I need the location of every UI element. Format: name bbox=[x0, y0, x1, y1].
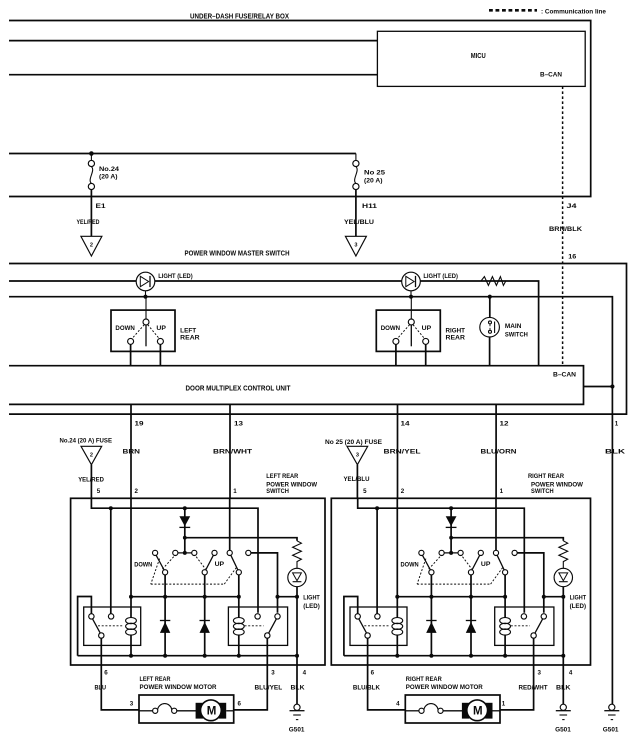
wire pin 13 BRN/WHT bbox=[229, 404, 231, 498]
relay2 coil (left rear) bbox=[233, 618, 244, 656]
contact b2 (left rear) bbox=[202, 570, 207, 575]
wire UP common (left rear) bbox=[204, 575, 206, 656]
junction dot c6 branch (left rear) bbox=[276, 595, 280, 599]
relay1 contacts (left rear) bbox=[89, 614, 114, 639]
wire c2-c3 link (right rear) bbox=[442, 552, 461, 554]
svg-text:DOWN: DOWN bbox=[381, 325, 401, 332]
connector triangle 2 (to fuse box) bbox=[81, 236, 102, 256]
junction dot c2-c3 (left rear) bbox=[183, 551, 187, 555]
svg-text:SWITCH: SWITCH bbox=[266, 488, 289, 495]
relay2 coil-lever dashed (left rear) bbox=[245, 625, 264, 627]
diode D2 (left rear) bbox=[160, 621, 170, 633]
LED D1 LIGHT (LED) bbox=[136, 272, 193, 297]
junction dot ground bus x297 (left rear) bbox=[295, 654, 299, 658]
junction dot LED D1 bbox=[143, 295, 147, 299]
ground bus wire (right rear) bbox=[344, 655, 563, 657]
svg-text:16: 16 bbox=[568, 253, 577, 260]
wire c2-c3 link (left rear) bbox=[175, 552, 194, 554]
connector triangle 2 (from fuse 24) bbox=[81, 446, 102, 464]
junction dot ground bus x204.7 (right rear) bbox=[469, 654, 473, 658]
connector triangle 3 (from fuse 25) bbox=[347, 446, 368, 464]
junction dot coil 2 (right rear) bbox=[503, 595, 507, 599]
power window master switch box bbox=[9, 264, 627, 415]
right rear switch S2 (master) bbox=[376, 297, 440, 352]
junction dot UP common (left rear) bbox=[203, 595, 207, 599]
junction dot coil1 bottom (right rear) bbox=[395, 654, 399, 658]
relay1 coil-lever dashed (left rear) bbox=[98, 625, 124, 627]
right rear power window motor label bbox=[406, 676, 483, 691]
junction dot LED (right rear) bbox=[561, 595, 565, 599]
svg-text:UP: UP bbox=[481, 561, 491, 568]
svg-text:BLK: BLK bbox=[605, 448, 626, 455]
junction dot B-CAN output bbox=[610, 384, 614, 388]
diode D1 (right rear) bbox=[446, 508, 457, 553]
wire pin 14 BRN/YEL bbox=[397, 404, 399, 498]
LED D2 LIGHT (LED) bbox=[402, 272, 458, 297]
svg-text:LIGHT: LIGHT bbox=[303, 595, 320, 602]
junction dot LED (left rear) bbox=[295, 595, 299, 599]
junction dot diode branch (left rear) bbox=[183, 536, 187, 540]
svg-text:BLK: BLK bbox=[556, 685, 571, 692]
contact b2 (right rear) bbox=[468, 570, 473, 575]
door multiplex control unit bbox=[9, 366, 584, 405]
switch lever UP (left rear) bbox=[206, 555, 214, 570]
svg-text:UP: UP bbox=[156, 325, 166, 332]
wire bus into MICU upper bbox=[9, 40, 377, 42]
svg-text:BLU/YEL: BLU/YEL bbox=[255, 685, 283, 692]
svg-text:3: 3 bbox=[130, 701, 134, 708]
LEFT REAR label (S1) bbox=[180, 327, 200, 341]
wire c6 to relay contact (left rear) bbox=[251, 553, 278, 613]
svg-text:1: 1 bbox=[500, 488, 504, 495]
svg-text:LEFT REAR: LEFT REAR bbox=[140, 676, 171, 683]
left rear power window motor M bbox=[139, 695, 234, 723]
junction dot coil2 bottom (left rear) bbox=[237, 654, 241, 658]
bus wire commons (right rear) bbox=[397, 596, 506, 598]
resistor R (right rear) bbox=[559, 541, 568, 569]
svg-text:YEL/BLU: YEL/BLU bbox=[344, 476, 370, 483]
wire LED junction link (left rear) bbox=[278, 596, 298, 598]
junction dot UP common (right rear) bbox=[469, 595, 473, 599]
svg-text:3: 3 bbox=[271, 670, 275, 677]
wire pin 12 BLU/ORN bbox=[495, 404, 497, 498]
left rear power window motor label bbox=[140, 676, 217, 691]
MICU U1 bbox=[377, 31, 585, 86]
contact c3 (right rear) bbox=[458, 550, 463, 555]
junction dot ground bus x204.7 (left rear) bbox=[203, 654, 207, 658]
svg-text:4: 4 bbox=[396, 701, 400, 708]
wire S1 up contact bbox=[159, 344, 161, 365]
contact c4 (left rear) bbox=[212, 550, 217, 555]
svg-text:M: M bbox=[207, 705, 217, 717]
svg-text:BRN/BLK: BRN/BLK bbox=[549, 226, 582, 233]
svg-text:H11: H11 bbox=[362, 203, 378, 210]
diode D3 (right rear) bbox=[466, 621, 476, 633]
wire switch 3 common to coil 2 (right rear) bbox=[504, 575, 506, 618]
svg-text:(LED): (LED) bbox=[570, 603, 587, 610]
svg-text:DOWN: DOWN bbox=[115, 325, 135, 332]
ground G501 (left rear) bbox=[289, 704, 305, 733]
LED LIGHT (right rear) bbox=[554, 568, 586, 610]
junction dot ground bus x297 (right rear) bbox=[561, 654, 565, 658]
svg-text:B–CAN: B–CAN bbox=[540, 72, 562, 79]
wire DOWN common (left rear) bbox=[164, 575, 166, 656]
contact c2 (right rear) bbox=[439, 550, 444, 555]
power feed wire bbox=[9, 153, 356, 155]
svg-text:(LED): (LED) bbox=[303, 603, 320, 610]
svg-text:13: 13 bbox=[234, 421, 244, 428]
junction dot main switch bbox=[488, 295, 492, 299]
wire LED branch (right rear) bbox=[451, 538, 563, 541]
switch linkage dashed (left rear) bbox=[151, 557, 236, 584]
svg-text:YEL/RED: YEL/RED bbox=[78, 477, 104, 484]
svg-text:6: 6 bbox=[238, 701, 242, 708]
svg-text:UP: UP bbox=[215, 561, 225, 568]
contact c5 (right rear) bbox=[493, 550, 498, 555]
sense wire to control unit bbox=[9, 297, 612, 387]
wire relay feed (right rear) bbox=[376, 508, 378, 614]
wire E1 YEL/RED bbox=[90, 190, 92, 237]
svg-text:(20 A): (20 A) bbox=[364, 178, 383, 185]
wire pin 2 to coil (right rear) bbox=[396, 498, 398, 617]
wire S2 up contact bbox=[425, 344, 427, 365]
bus wire commons (left rear) bbox=[130, 596, 239, 598]
svg-text:G501: G501 bbox=[555, 727, 571, 734]
RIGHT REAR POWER WINDOW SWITCH label bbox=[528, 473, 583, 495]
svg-text:5: 5 bbox=[363, 488, 367, 495]
wire bus into MICU lower bbox=[9, 74, 377, 76]
wire relay1 common to motor (left rear) bbox=[101, 638, 139, 710]
resistor R1 bbox=[481, 277, 506, 286]
wire pin 5 feed (left rear) bbox=[91, 498, 258, 613]
wire pin 2 to coil (left rear) bbox=[130, 498, 132, 617]
contact b3 (left rear) bbox=[236, 570, 241, 575]
svg-text:BLU/ORN: BLU/ORN bbox=[481, 448, 517, 455]
LED supply wire bbox=[9, 281, 539, 366]
relay sub-box 1 (left rear) bbox=[84, 607, 141, 645]
svg-text:5: 5 bbox=[97, 488, 101, 495]
relay1 contacts (right rear) bbox=[355, 614, 380, 639]
svg-text:SWITCH: SWITCH bbox=[531, 488, 554, 495]
svg-text:3: 3 bbox=[354, 243, 357, 249]
wire pin 1 BLK bbox=[611, 387, 613, 705]
wire relay1 NC hook (left rear) bbox=[78, 597, 92, 656]
right rear power window switch box bbox=[331, 498, 590, 665]
junction dot diode branch (right rear) bbox=[449, 536, 453, 540]
junction dot ground bus x165.1 (left rear) bbox=[163, 654, 167, 658]
junction dot pin5 branch (left rear) bbox=[109, 506, 113, 510]
relay1 coil-lever dashed (right rear) bbox=[364, 625, 390, 627]
svg-text:LEFT: LEFT bbox=[180, 327, 196, 334]
contact c4 (right rear) bbox=[478, 550, 483, 555]
svg-text:RED/WHT: RED/WHT bbox=[519, 685, 548, 692]
wire B-CAN BRN/BLK (communication line) bbox=[562, 86, 564, 365]
svg-text:G501: G501 bbox=[289, 727, 305, 734]
switch lever aux (right rear) bbox=[497, 555, 504, 570]
relay1 coil (right rear) bbox=[392, 618, 403, 656]
svg-text:G501: G501 bbox=[603, 727, 619, 734]
junction dot diode top (left rear) bbox=[183, 506, 187, 510]
diode D2 (right rear) bbox=[426, 621, 436, 633]
wire pin 1 to c5 (left rear) bbox=[229, 498, 231, 550]
svg-text:RIGHT REAR: RIGHT REAR bbox=[406, 676, 442, 683]
svg-text:LEFT REAR: LEFT REAR bbox=[266, 473, 298, 480]
svg-text:2: 2 bbox=[401, 488, 405, 495]
left rear switch S1 (master) bbox=[111, 297, 175, 352]
svg-text:No.24: No.24 bbox=[99, 166, 120, 173]
svg-text:UP: UP bbox=[422, 325, 432, 332]
junction dot fuse No.24 tap bbox=[89, 151, 94, 156]
junction dot pin5 branch (right rear) bbox=[375, 506, 379, 510]
LED LIGHT (left rear) bbox=[288, 568, 320, 610]
svg-text:3: 3 bbox=[356, 452, 359, 458]
svg-text:REAR: REAR bbox=[446, 335, 466, 342]
junction dot coil1 bottom (left rear) bbox=[129, 654, 133, 658]
wire c6 to relay contact (right rear) bbox=[517, 553, 544, 613]
ground G501 (master switch) bbox=[603, 704, 620, 733]
under-dash fuse/relay box border bbox=[9, 21, 591, 197]
junction dot ground bus x165.1 (right rear) bbox=[429, 654, 433, 658]
relay sub-box 2 (right rear) bbox=[495, 607, 554, 645]
wire relay feed (left rear) bbox=[110, 508, 112, 614]
wire YEL/BLU to pin 5 bbox=[356, 465, 358, 499]
svg-text:1: 1 bbox=[502, 701, 506, 708]
svg-text:2: 2 bbox=[90, 452, 93, 458]
wire pin 1 to c5 (right rear) bbox=[495, 498, 497, 550]
svg-text:No.24 (20 A) FUSE: No.24 (20 A) FUSE bbox=[60, 437, 113, 444]
B-CAN output wire bbox=[584, 386, 613, 388]
wire LED junction link (right rear) bbox=[544, 596, 564, 598]
connector triangle 3 (to fuse box) bbox=[345, 236, 366, 256]
svg-text:M: M bbox=[473, 705, 483, 717]
contact b1 (left rear) bbox=[163, 570, 168, 575]
wire pin 4 BLK (left rear) bbox=[296, 656, 298, 705]
diode D1 (left rear) bbox=[179, 508, 190, 553]
svg-text:BRN/YEL: BRN/YEL bbox=[384, 448, 421, 455]
svg-text:BLU: BLU bbox=[95, 685, 107, 692]
junction dot c2-c3 (right rear) bbox=[449, 551, 453, 555]
wire switch 3 common to coil 2 (left rear) bbox=[238, 575, 240, 618]
wire H11 YEL/BLU bbox=[355, 190, 357, 237]
wire relay1 NC hook (right rear) bbox=[344, 597, 358, 656]
wire relay2 common to motor (right rear) bbox=[500, 638, 534, 710]
relay sub-box 1 (right rear) bbox=[350, 607, 407, 645]
junction dot coil2 bottom (right rear) bbox=[503, 654, 507, 658]
LEFT REAR POWER WINDOW SWITCH label bbox=[266, 473, 317, 495]
svg-text:BRN/WHT: BRN/WHT bbox=[213, 448, 252, 455]
svg-text:1: 1 bbox=[233, 488, 237, 495]
svg-text:LIGHT (LED): LIGHT (LED) bbox=[423, 273, 458, 280]
svg-text:MICU: MICU bbox=[471, 53, 486, 60]
svg-text:No 25: No 25 bbox=[364, 170, 386, 177]
wire relay1 common to motor (right rear) bbox=[368, 638, 406, 710]
relay sub-box 2 (left rear) bbox=[228, 607, 287, 645]
switch lever DOWN (right rear) bbox=[422, 555, 430, 570]
wire DOWN common (right rear) bbox=[430, 575, 432, 656]
switch lever DOWN (left rear) bbox=[156, 555, 164, 570]
wire UP common (right rear) bbox=[470, 575, 472, 656]
svg-text:RIGHT REAR: RIGHT REAR bbox=[528, 473, 564, 480]
svg-text:DOWN: DOWN bbox=[401, 561, 420, 568]
svg-text:(20 A): (20 A) bbox=[99, 174, 118, 181]
wire relay2 common to motor (left rear) bbox=[234, 638, 268, 710]
switch linkage dashed (right rear) bbox=[417, 557, 502, 584]
svg-text:UNDER–DASH FUSE/RELAY BOX: UNDER–DASH FUSE/RELAY BOX bbox=[190, 13, 289, 20]
wire S1 down contact bbox=[130, 344, 132, 365]
svg-text:2: 2 bbox=[135, 488, 139, 495]
wire LED down (left rear) bbox=[296, 587, 298, 656]
wire YEL/RED to pin 5 bbox=[90, 465, 92, 499]
fuse No.25 (20 A) bbox=[353, 154, 386, 190]
switch lever UP (right rear) bbox=[472, 555, 480, 570]
svg-text:DOOR MULTIPLEX CONTROL UNIT: DOOR MULTIPLEX CONTROL UNIT bbox=[186, 386, 292, 393]
svg-text:12: 12 bbox=[500, 421, 510, 428]
svg-text:: Communication line: : Communication line bbox=[541, 8, 606, 15]
contact c1 (left rear) bbox=[153, 550, 158, 555]
relay2 contacts (right rear) bbox=[521, 614, 546, 639]
junction dot coil 2 (left rear) bbox=[237, 595, 241, 599]
junction dot LED D2 bbox=[409, 295, 413, 299]
contact c6 (left rear) bbox=[246, 550, 251, 555]
svg-text:YEL/BLU: YEL/BLU bbox=[344, 219, 374, 226]
RIGHT REAR label (S2) bbox=[446, 327, 466, 341]
svg-text:POWER WINDOW MOTOR: POWER WINDOW MOTOR bbox=[406, 684, 483, 691]
contact c2 (left rear) bbox=[173, 550, 178, 555]
wire LED down (right rear) bbox=[562, 587, 564, 656]
relay2 coil-lever dashed (right rear) bbox=[511, 625, 530, 627]
contact c1 (right rear) bbox=[419, 550, 424, 555]
relay2 contacts (left rear) bbox=[255, 614, 280, 639]
svg-text:LIGHT: LIGHT bbox=[570, 595, 587, 602]
relay2 coil (right rear) bbox=[500, 618, 511, 656]
switch lever aux (left rear) bbox=[231, 555, 238, 570]
contact b3 (right rear) bbox=[503, 570, 508, 575]
svg-text:B–CAN: B–CAN bbox=[553, 372, 576, 379]
svg-text:POWER WINDOW MASTER SWITCH: POWER WINDOW MASTER SWITCH bbox=[185, 251, 290, 258]
ground G501 (right rear) bbox=[555, 704, 571, 733]
junction dot c6 branch (right rear) bbox=[542, 595, 546, 599]
svg-text:4: 4 bbox=[569, 670, 573, 677]
svg-text:POWER WINDOW MOTOR: POWER WINDOW MOTOR bbox=[140, 684, 217, 691]
svg-text:2: 2 bbox=[90, 243, 93, 249]
svg-text:1: 1 bbox=[615, 421, 619, 428]
svg-text:REAR: REAR bbox=[180, 335, 200, 342]
svg-text:MAIN: MAIN bbox=[505, 323, 522, 330]
svg-text:6: 6 bbox=[371, 670, 375, 677]
right rear power window motor M bbox=[405, 695, 500, 723]
wire pin 19 BRN bbox=[130, 404, 132, 498]
junction dot coil 1 (right rear) bbox=[395, 595, 399, 599]
junction dot coil 1 (left rear) bbox=[129, 595, 133, 599]
junction dot DOWN common (right rear) bbox=[429, 595, 433, 599]
contact c3 (left rear) bbox=[192, 550, 197, 555]
svg-text:J4: J4 bbox=[567, 203, 578, 210]
left rear power window switch box bbox=[71, 498, 325, 665]
junction dot diode top (right rear) bbox=[449, 506, 453, 510]
svg-text:3: 3 bbox=[538, 670, 542, 677]
main switch S3 bbox=[480, 297, 529, 366]
svg-text:No 25 (20 A) FUSE: No 25 (20 A) FUSE bbox=[325, 439, 382, 446]
svg-text:E1: E1 bbox=[96, 203, 107, 210]
contact c5 (left rear) bbox=[227, 550, 232, 555]
communication line legend bbox=[489, 8, 606, 15]
diode D3 (left rear) bbox=[200, 621, 210, 633]
contact b1 (right rear) bbox=[429, 570, 434, 575]
svg-text:BLK: BLK bbox=[291, 685, 305, 692]
svg-text:BLU/BLK: BLU/BLK bbox=[353, 685, 380, 692]
wire S2 down contact bbox=[395, 344, 397, 365]
svg-text:DOWN: DOWN bbox=[134, 561, 153, 568]
svg-text:14: 14 bbox=[401, 421, 411, 428]
ground bus wire (left rear) bbox=[78, 655, 297, 657]
svg-text:4: 4 bbox=[303, 670, 307, 677]
svg-text:BRN: BRN bbox=[123, 448, 141, 455]
svg-text:SWITCH: SWITCH bbox=[505, 332, 528, 339]
svg-text:RIGHT: RIGHT bbox=[446, 327, 466, 334]
svg-text:LIGHT (LED): LIGHT (LED) bbox=[158, 273, 193, 280]
svg-text:6: 6 bbox=[104, 670, 108, 677]
resistor R (left rear) bbox=[293, 541, 302, 569]
fuse No.24 (20 A) bbox=[88, 154, 119, 190]
wire pin 4 BLK (right rear) bbox=[562, 656, 564, 705]
svg-text:19: 19 bbox=[135, 421, 145, 428]
contact c6 (right rear) bbox=[512, 550, 517, 555]
svg-text:YEL/RED: YEL/RED bbox=[77, 219, 100, 226]
relay1 coil (left rear) bbox=[126, 618, 137, 656]
wire pin 5 feed (right rear) bbox=[358, 498, 525, 613]
wire LED branch (left rear) bbox=[185, 538, 297, 541]
junction dot DOWN common (left rear) bbox=[163, 595, 167, 599]
